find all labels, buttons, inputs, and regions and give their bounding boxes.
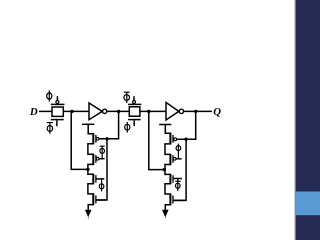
svg-text:Q: Q	[213, 106, 221, 118]
svg-text:D: D	[29, 106, 38, 118]
